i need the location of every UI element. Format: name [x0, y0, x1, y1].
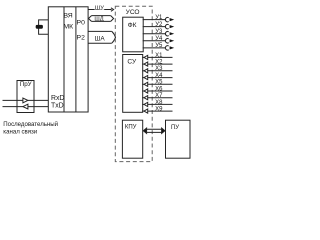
crystal ZQ body [36, 25, 43, 29]
output У2 socket arc [165, 24, 168, 28]
output У2 wire [143, 26, 166, 28]
svg-text:Р0: Р0 [77, 19, 86, 26]
input Х3 socket triangle [144, 69, 148, 73]
buffer triangle from TxD [23, 104, 28, 109]
input Х7 stub [142, 97, 144, 99]
output У5 socket arc [165, 46, 168, 50]
input Х8 stub [142, 103, 144, 105]
svg-text:Х1: Х1 [155, 53, 163, 59]
svg-text:RxD: RxD [51, 95, 64, 102]
bus ША arrow tip [112, 31, 116, 43]
svg-text:Последовательный: Последовательный [3, 121, 58, 128]
svg-text:ПУ: ПУ [171, 125, 179, 131]
input Х5 socket triangle [144, 82, 148, 86]
input Х6 stub [142, 90, 144, 92]
svg-text:МК: МК [63, 23, 73, 30]
input Х9 wire [148, 110, 173, 112]
input Х7 socket triangle [144, 96, 148, 100]
bus ШУ wire [88, 9, 111, 11]
serial TxD wire [3, 106, 23, 108]
crystal wire top stub [39, 20, 49, 34]
svg-text:СУ: СУ [127, 58, 137, 65]
svg-text:КПУ: КПУ [125, 124, 137, 130]
svg-text:Х6: Х6 [155, 86, 163, 92]
svg-text:ПрУ: ПрУ [20, 81, 32, 88]
output У3 wire [143, 33, 166, 35]
input Х5 wire [148, 83, 173, 85]
input Х6 wire [148, 90, 173, 92]
input Х8 socket triangle [144, 102, 148, 106]
input Х4 wire [148, 77, 173, 79]
svg-text:У1: У1 [155, 15, 163, 21]
input Х9 socket triangle [144, 109, 148, 113]
level matcher box СУ [123, 55, 143, 113]
output У1 pin arrow [170, 18, 175, 21]
svg-text:У5: У5 [155, 43, 163, 49]
bus ШД bottom line [92, 20, 111, 22]
buffer triangle to RxD [23, 98, 28, 103]
input Х3 stub [142, 70, 144, 72]
command shaper box ФК [123, 17, 144, 52]
input Х7 wire [148, 97, 173, 99]
svg-text:Х5: Х5 [155, 80, 163, 86]
svg-text:У3: У3 [155, 29, 163, 35]
serial RxD wire [3, 99, 23, 101]
output У3 pin arrow [170, 32, 175, 35]
svg-text:канал связи: канал связи [3, 128, 37, 135]
bus ШД top line [92, 15, 111, 17]
MCU block МК [48, 7, 88, 112]
svg-text:Х4: Х4 [155, 73, 163, 79]
output У pins group [143, 17, 175, 50]
input Х1 wire [148, 56, 173, 58]
input Х5 stub [142, 83, 144, 85]
output У5 pin arrow [170, 46, 175, 49]
svg-text:У2: У2 [155, 22, 163, 28]
bus ША bottom line [88, 42, 112, 44]
input Х3 wire [148, 70, 173, 72]
svg-text:Х9: Х9 [155, 107, 163, 113]
label ШУ background [95, 4, 105, 9]
bus ША top line [88, 30, 112, 32]
dashed interface box УСО [115, 6, 152, 161]
input Х4 stub [142, 77, 144, 79]
svg-text:ШД: ШД [94, 17, 103, 23]
input Х2 wire [148, 63, 173, 65]
svg-text:ФК: ФК [128, 22, 137, 29]
svg-text:УСО: УСО [126, 9, 140, 16]
MCU internal divider 1 [63, 7, 65, 112]
svg-text:Р2: Р2 [77, 35, 86, 42]
svg-text:Х3: Х3 [155, 66, 163, 72]
receiver box ПрУ [17, 81, 34, 113]
output У4 socket arc [165, 39, 168, 43]
КПУ-ПУ link double arrow [143, 128, 165, 133]
svg-text:У4: У4 [155, 36, 163, 42]
svg-text:Х7: Х7 [155, 93, 163, 99]
input Х6 socket triangle [144, 89, 148, 93]
bus ШД right arrowhead [111, 16, 114, 22]
output У1 socket arc [165, 17, 168, 21]
keypad box КПУ [122, 120, 142, 158]
input Х2 socket triangle [144, 62, 148, 66]
input Х pins group [142, 55, 172, 113]
svg-text:Х2: Х2 [155, 60, 163, 66]
input Х1 stub [142, 56, 144, 58]
output У4 pin arrow [170, 39, 175, 42]
output У2 pin arrow [170, 25, 175, 28]
svg-text:ША: ША [95, 35, 106, 42]
MCU internal divider 2 [75, 7, 77, 112]
input Х2 stub [142, 63, 144, 65]
svg-text:ШУ: ШУ [95, 5, 104, 11]
input Х1 socket triangle [144, 55, 148, 59]
output У3 socket arc [165, 31, 168, 35]
output У4 wire [143, 40, 166, 42]
output У1 wire [143, 19, 166, 21]
output У5 wire [143, 47, 166, 49]
input Х4 socket triangle [144, 76, 148, 80]
bus ШУ arrowhead [111, 8, 114, 12]
svg-text:ВЯ: ВЯ [63, 13, 72, 20]
svg-text:TxD: TxD [51, 102, 64, 109]
input Х9 stub [142, 110, 144, 112]
control panel box ПУ [166, 120, 191, 158]
svg-text:Х8: Х8 [155, 100, 163, 106]
input Х8 wire [148, 103, 173, 105]
bus ШД left arrowhead [89, 16, 92, 22]
